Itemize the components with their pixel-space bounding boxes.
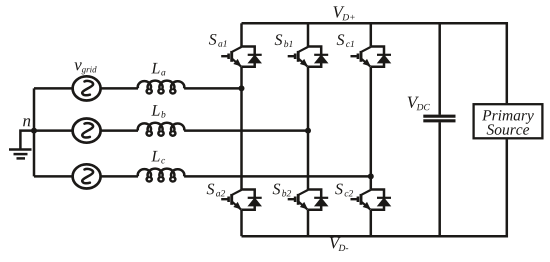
wire ground stub	[20, 131, 34, 149]
wire source to inductor Lc	[101, 175, 138, 178]
primary source box	[474, 104, 543, 138]
wire top bus to Sb1 collector	[307, 23, 310, 46]
wire bus to source vb	[34, 129, 73, 132]
wire Sc1 emitter to node c	[370, 67, 373, 177]
wire top bus VD+	[242, 23, 507, 103]
inductor Lb	[138, 123, 184, 136]
IGBT Sc1	[351, 47, 392, 67]
wire inductor Lb to leg	[184, 129, 308, 132]
inductor Lc	[138, 169, 184, 182]
wire source to inductor Lb	[101, 129, 138, 132]
ac source phase b	[73, 119, 101, 143]
inductor La	[138, 81, 184, 94]
ac source phase a	[73, 76, 101, 100]
node phase b junction dot	[305, 128, 311, 134]
wire node a to Sa2 collector	[240, 88, 243, 189]
wire capacitor to bottom bus	[438, 122, 441, 236]
wire Sa2 emitter to bottom bus	[240, 210, 243, 236]
label Sb2	[273, 184, 281, 195]
wire Sc2 emitter to bottom bus	[370, 210, 373, 236]
ac source phase c	[73, 164, 101, 188]
label Sa1	[209, 34, 217, 45]
label vgrid	[74, 62, 81, 70]
ground	[9, 150, 32, 159]
label La	[151, 63, 159, 73]
IGBT Sb2	[288, 190, 329, 210]
label Sa2	[207, 184, 215, 195]
label Primary Source	[482, 110, 534, 124]
node phase c junction dot	[368, 173, 374, 179]
wire node b to Sb2 collector	[307, 131, 310, 190]
wire top bus to Sa1 collector	[240, 23, 243, 46]
wire Sb1 emitter to node b	[307, 67, 310, 131]
wire bus to source va	[34, 87, 73, 90]
wire inductor La to leg	[184, 87, 241, 90]
label Sc1	[337, 34, 345, 45]
label Lb	[151, 105, 159, 115]
label n	[23, 118, 30, 126]
capacitor VDC	[423, 116, 455, 121]
label VDC	[408, 97, 419, 108]
label Lc	[151, 151, 159, 161]
node n junction dot	[31, 128, 37, 134]
label Sc2	[335, 184, 343, 195]
wire top bus to Sc1 collector	[370, 23, 373, 46]
wire bottom bus VD-	[242, 140, 507, 237]
node phase a junction dot	[239, 85, 245, 91]
IGBT Sb1	[288, 47, 329, 67]
wire left bus vertical	[33, 88, 36, 176]
wire top bus to capacitor	[438, 23, 441, 115]
wire node c to Sc2 collector	[370, 176, 373, 189]
IGBT Sa1	[221, 47, 262, 67]
wire source to inductor La	[101, 87, 138, 90]
label VD-	[330, 237, 341, 248]
wire Sa1 emitter to node a	[240, 67, 243, 89]
label Sb1	[275, 34, 283, 45]
wire inductor Lc to leg	[184, 175, 371, 178]
label VD+	[333, 6, 344, 17]
wire bus to source vc	[34, 175, 73, 178]
IGBT Sa2	[221, 190, 262, 210]
IGBT Sc2	[351, 190, 392, 210]
wire Sb2 emitter to bottom bus	[307, 210, 310, 236]
